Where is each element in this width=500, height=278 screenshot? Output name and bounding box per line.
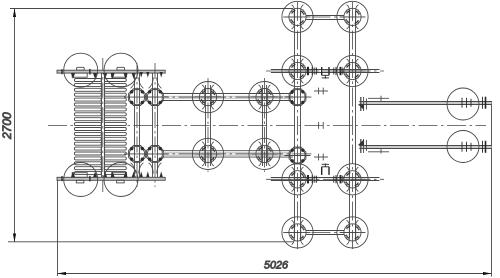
hex clamp fitting lower (285, 147, 311, 164)
horizontal dimension line 5026 (58, 273, 492, 275)
vertical centerline right pair (264, 78, 266, 172)
flange fitting upper-right (142, 89, 168, 106)
top beam ticks (462, 97, 486, 109)
insulator cap below bottom rail (right) (117, 180, 125, 183)
row3 rod clamp ticks (308, 175, 343, 183)
clamp jaws dark marks bottom rail (71, 172, 136, 178)
hex clamp fitting upper (285, 89, 311, 106)
insulator bell profiles above bottom rail (131, 163, 162, 174)
bottom beam (359, 145, 491, 147)
bottom beam fill (359, 146, 491, 149)
small plus marks upper (314, 90, 328, 92)
frame insulator row1 left (282, 1, 313, 32)
row2 hanging clamp bracket (322, 67, 329, 79)
extension line bottom-right vertical (491, 101, 493, 277)
arrester top circle right (104, 53, 138, 87)
flange column rod left (134, 73, 136, 177)
svg-text:5026: 5026 (264, 260, 288, 272)
top beam (359, 101, 491, 103)
clamp foot below top rail (left) (72, 73, 87, 77)
frame insulator row4 left (282, 217, 313, 248)
bottom beam gusset dark mark (358, 139, 364, 145)
frame insulator row2 left (282, 55, 313, 86)
bottom beam ticks (462, 141, 486, 153)
row3 hanging clamp bracket (mirrored up) (322, 164, 329, 175)
crane hook circle bottom (447, 131, 479, 163)
hanger marks under rail right end (140, 72, 163, 177)
flange column centerline left (136, 63, 138, 187)
svg-text:2700: 2700 (0, 112, 14, 140)
bottom mounting rail (57, 177, 165, 180)
vertical tie rod left pair (205, 85, 207, 166)
flange fitting lower-right (142, 146, 168, 163)
dimension extension line top (10, 8, 293, 10)
frame insulator row3 left (282, 164, 313, 195)
flange column centerline right (154, 63, 156, 187)
upper rod centerline (150, 96, 312, 98)
row2 long rod (266, 70, 384, 72)
frame left vertical rod (294, 11, 296, 238)
support insulator B2 (249, 138, 280, 169)
clamp foot above bottom rail (left) (72, 173, 87, 178)
top beam gusset dark mark (358, 104, 364, 110)
small plus marks lower (314, 156, 328, 158)
dimension extension line bottom (8, 241, 294, 243)
flange fitting lower-left (124, 146, 150, 163)
vertical dimension line 2700 (14, 9, 16, 243)
lower rod tube (161, 150, 293, 152)
lower rod centerline (150, 153, 312, 155)
bottom beam end plates (360, 139, 362, 153)
flange column rod right (152, 73, 154, 177)
bottom beam row4 (283, 232, 368, 234)
clamp foot above bottom rail (right) (112, 173, 127, 178)
frame insulator row2 right (337, 55, 368, 86)
frame insulator row1 right (337, 1, 368, 32)
top beam upper stub line (368, 97, 389, 99)
main horizontal centerline (48, 125, 486, 127)
row2 rod clamp ticks (308, 67, 343, 75)
top beam end plates (360, 97, 362, 111)
insulator cap above top rail (left) (77, 67, 85, 70)
small plus marks on centerline (318, 122, 320, 129)
extension line bottom-left vertical (57, 178, 59, 276)
vertical tie rod right pair (262, 85, 264, 166)
crane hook circle top (447, 88, 479, 120)
support insulator A2 (249, 82, 280, 113)
insulator cap above top rail (right) (117, 67, 125, 70)
top mounting rail (57, 70, 165, 73)
stack vertical centerline (102, 58, 104, 192)
support insulator A1 (192, 82, 223, 113)
insulator cap below bottom rail (left) (76, 180, 84, 183)
flange fitting upper-left (124, 89, 150, 106)
frame left vertical centerline (297, 2, 299, 249)
clamp foot below top rail (right) (112, 73, 127, 77)
top beam row1 (283, 16, 368, 18)
frame insulator row3 right (337, 164, 368, 195)
arrester bottom circle right (104, 163, 138, 197)
frame insulator row4 right (337, 217, 368, 248)
insulator bell profiles below top rail (131, 78, 162, 89)
row3 long rod (266, 178, 384, 180)
stack central channel (101, 73, 103, 177)
support insulator B1 (192, 138, 223, 169)
upper rod tube (161, 93, 293, 95)
frame right vertical centerline (352, 2, 354, 249)
arrester top circle left (64, 53, 98, 87)
bottom beam lower stub line (368, 151, 389, 153)
arrester bottom circle left (64, 163, 98, 197)
top beam fill (359, 102, 491, 105)
corrugated ribs (74, 79, 126, 175)
clamp jaws dark marks top rail (71, 73, 136, 79)
vertical centerline left pair (207, 78, 209, 172)
frame right vertical rod (349, 11, 351, 238)
rail bolt ticks top (61, 69, 63, 74)
